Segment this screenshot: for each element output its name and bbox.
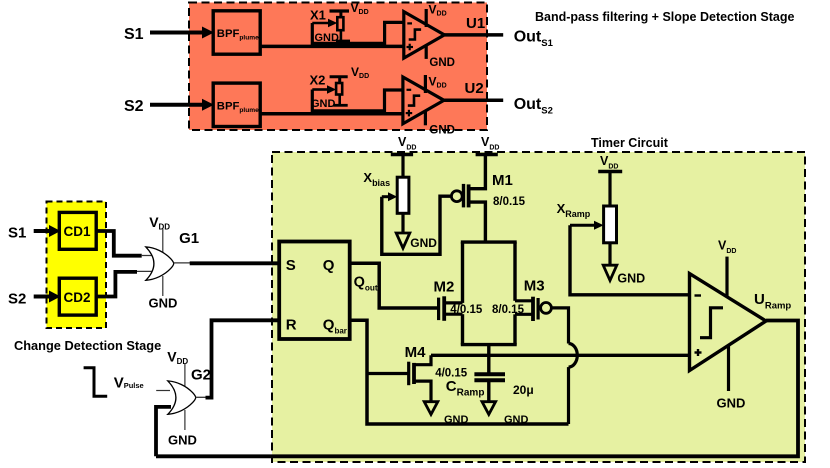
svg-text:M2: M2 (434, 278, 455, 295)
wire S1 arrow into BPF1 (150, 27, 214, 39)
op-amp U_Ramp (690, 238, 792, 410)
change detector CD1 (59, 212, 96, 249)
svg-text:GND: GND (410, 236, 437, 250)
band-pass filtering + slope detection stage box (189, 3, 794, 131)
svg-text:U1: U1 (466, 15, 485, 32)
svg-text:M1: M1 (492, 172, 513, 189)
svg-text:S2: S2 (124, 98, 144, 115)
wire S1 arrow into CD1 (34, 225, 61, 237)
svg-text:8/0.15: 8/0.15 (492, 304, 525, 316)
wire U2 output (444, 99, 503, 103)
wire Qbar down to bottom rail (350, 320, 569, 424)
BPF plume block 1 (213, 11, 260, 54)
svg-text:S1: S1 (124, 26, 144, 43)
svg-text:S: S (286, 257, 296, 274)
potentiometer X_bias (363, 135, 437, 250)
transistor M2 (NMOS 4/0.15) (434, 278, 483, 320)
svg-text:M3: M3 (524, 278, 545, 295)
potentiometer X_Ramp (557, 154, 646, 286)
svg-text:X2: X2 (310, 72, 326, 87)
transistor M4 (NMOS 4/0.15) (367, 344, 469, 426)
transistor M3 (PMOS 8/0.15) (492, 278, 551, 322)
wire U1 output (444, 33, 503, 37)
svg-text:GND: GND (168, 433, 197, 448)
svg-text:G1: G1 (179, 230, 199, 247)
svg-text:GND: GND (717, 396, 746, 411)
svg-text:GND: GND (149, 296, 178, 311)
svg-text:G2: G2 (191, 366, 211, 383)
V_Pulse waveform symbol (84, 368, 144, 397)
wire G2 output to latch R input (206, 320, 282, 397)
svg-text:GND: GND (311, 98, 336, 110)
svg-text:CD2: CD2 (64, 290, 91, 305)
svg-text:GND: GND (504, 414, 529, 426)
wire X2 wiper loop to U2 - input (312, 90, 404, 111)
wire drain rail rectangle (M1 drain to M2/M3 branches) (461, 242, 517, 357)
svg-text:S2: S2 (8, 290, 26, 307)
op-amp U2 (slope detector comparator) (403, 75, 484, 137)
svg-text:20μ: 20μ (513, 383, 534, 397)
svg-text:4/0.15: 4/0.15 (450, 304, 483, 316)
wire M3 gate to bottom rail with hop over ramp wire (552, 308, 577, 424)
svg-text:8/0.15: 8/0.15 (493, 196, 526, 208)
svg-text:M4: M4 (405, 344, 426, 361)
wire X_bias wiper loop to M1 gate (382, 196, 452, 254)
wire Q to M2 gate (350, 263, 438, 308)
svg-text:GND: GND (617, 272, 645, 286)
change detector CD2 (59, 278, 96, 315)
svg-text:Q: Q (323, 257, 335, 274)
transistor M1 (PMOS 8/0.15) (451, 135, 525, 242)
wire G1 output to latch S input (190, 261, 281, 265)
capacitor C_Ramp 20u (446, 355, 534, 426)
wire BPF2 output to U2 + input (260, 112, 404, 116)
svg-text:Band-pass filtering + Slope De: Band-pass filtering + Slope Detection St… (535, 10, 794, 24)
SR latch U (S R Q Qbar) (279, 242, 350, 340)
potentiometer X1 (310, 1, 369, 44)
wire X_Ramp wiper loop to comparator - input (570, 225, 691, 295)
wire BPF1 output to U1 + input (260, 45, 405, 49)
timer circuit box (272, 136, 805, 462)
svg-text:Change Detection Stage: Change Detection Stage (14, 338, 161, 353)
wire feedback into G2 lower input (156, 407, 171, 456)
svg-text:Timer Circuit: Timer Circuit (591, 136, 669, 150)
change detection stage box (14, 202, 161, 354)
op-amp U1 (slope detector comparator) (404, 3, 485, 70)
wire U_Ramp output feedback to G2 (156, 321, 798, 457)
wire CD1 output to G1 (96, 231, 142, 256)
OR gate G2 (156, 349, 211, 448)
svg-text:GND: GND (429, 125, 455, 137)
svg-text:S1: S1 (8, 224, 26, 241)
svg-text:U2: U2 (465, 80, 484, 97)
wire CD2 output to G1 (96, 272, 137, 297)
BPF plume block 2 (213, 83, 260, 126)
potentiometer X2 (310, 65, 370, 110)
svg-text:X1: X1 (310, 8, 326, 23)
svg-text:GND: GND (429, 57, 455, 69)
wire S2 arrow into BPF2 (150, 99, 214, 111)
OR gate G1 (146, 214, 199, 311)
svg-text:GND: GND (444, 414, 469, 426)
wire S2 arrow into CD2 (34, 291, 61, 303)
wire ramp node horizontal to comparator + input (431, 354, 691, 357)
wire X1 wiper loop to U1 - input (312, 22, 405, 43)
svg-text:R: R (286, 317, 297, 334)
svg-text:CD1: CD1 (64, 224, 91, 239)
